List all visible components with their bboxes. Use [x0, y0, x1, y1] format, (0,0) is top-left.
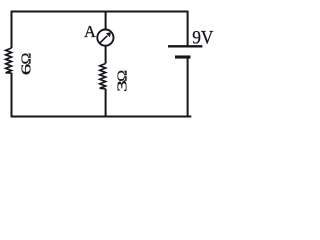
wire: bottom side from left corner to battery corner [12, 116, 192, 118]
wire: left side above resistor R1 [11, 11, 13, 48]
ammeter A (meter circle) [97, 29, 113, 45]
wire: top side from left corner to battery corner [12, 11, 188, 13]
svg-text:A: A [84, 22, 96, 41]
wire: right side from battery down to bottom corner [187, 59, 189, 118]
battery BT1 negative plate (short thick) [175, 55, 191, 58]
svg-text:9V: 9V [192, 28, 213, 49]
wire: left side below resistor R1 [11, 73, 13, 118]
resistor R1 zigzag [6, 48, 12, 73]
resistor R2 value label 3Ω (rotated) [115, 70, 130, 92]
svg-text:3: 3 [115, 80, 130, 92]
wire: right side from top corner down to battery [187, 11, 189, 46]
svg-text:6: 6 [19, 63, 34, 75]
resistor R1 value label 6Ω (rotated) [19, 53, 34, 76]
wire: middle branch from resistor R2 down to bottom wire [105, 89, 107, 118]
wire: middle branch from top wire down to ammeter [105, 12, 107, 30]
battery BT1 positive plate (long) [168, 45, 202, 47]
wire: middle branch from ammeter down to resistor R2 [105, 46, 107, 63]
svg-text:Ω: Ω [115, 70, 130, 82]
resistor R2 zigzag [100, 64, 106, 89]
svg-text:Ω: Ω [19, 53, 34, 65]
ammeter needle arrow [100, 32, 111, 43]
